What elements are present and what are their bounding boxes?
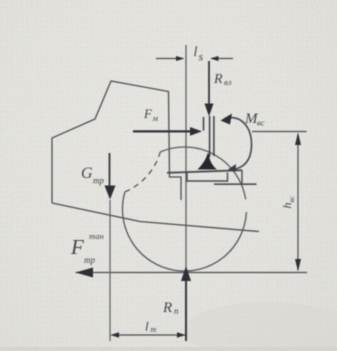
dimension h_vs vertical line — [297, 134, 299, 270]
svg-text:F: F — [143, 106, 153, 121]
svg-text:F: F — [70, 235, 84, 259]
svg-text:вл: вл — [224, 77, 232, 87]
label h_vs (rotated) — [280, 195, 296, 208]
bracket top plate — [167, 170, 242, 173]
support triangle (filled) — [198, 154, 218, 170]
label M_vs — [244, 111, 265, 128]
svg-text:l: l — [194, 45, 198, 60]
label G_tr — [81, 165, 104, 186]
hitch pin lines — [204, 116, 214, 157]
svg-text:R: R — [213, 72, 223, 87]
label F_tr^tan — [70, 231, 104, 265]
svg-text:м: м — [152, 113, 159, 123]
svg-text:тр: тр — [84, 255, 95, 265]
weight arrow G_tr (down) — [109, 153, 111, 186]
dimension l_s (top) — [156, 56, 233, 61]
svg-text:тр: тр — [93, 176, 104, 186]
force arrow F_m (horizontal) — [133, 130, 194, 132]
label F_m — [143, 106, 159, 123]
bracket channel — [187, 173, 228, 182]
svg-text:s: s — [199, 50, 204, 64]
dimension h_vs top reference line — [252, 131, 307, 133]
reaction arrow R_p (up from ground) — [185, 276, 187, 341]
wheel circle dashed arc — [125, 152, 160, 192]
wheel circle solid arc top — [160, 147, 245, 199]
label R_p — [162, 300, 179, 316]
label R_vl — [213, 72, 232, 87]
wheel circle solid arc main — [122, 192, 246, 271]
extension line below G — [109, 200, 111, 341]
tractor body outline — [52, 81, 181, 203]
dimension l_t (bottom) — [111, 332, 186, 338]
label l_t — [145, 319, 157, 335]
svg-text:вс: вс — [257, 118, 265, 128]
force arrow F_tr (left arrowhead on ground line) — [76, 268, 94, 278]
tractor body bottom edge — [52, 203, 259, 232]
bracket lower flange — [214, 183, 257, 185]
ground line — [76, 272, 308, 274]
svg-text:п: п — [174, 306, 179, 316]
moment arc M_vs — [225, 118, 252, 170]
faint mottle bottom right — [183, 302, 337, 351]
svg-text:l: l — [145, 319, 149, 334]
wheel centerline — [185, 45, 187, 270]
label l_s — [194, 45, 204, 64]
svg-text:тан: тан — [89, 231, 104, 241]
svg-text:т: т — [151, 325, 157, 334]
svg-text:R: R — [162, 300, 172, 316]
bottom scan shadow — [0, 347, 337, 351]
svg-text:G: G — [81, 165, 93, 182]
force arrow R_vl (down) — [208, 61, 210, 106]
bracket right drop — [241, 170, 243, 184]
